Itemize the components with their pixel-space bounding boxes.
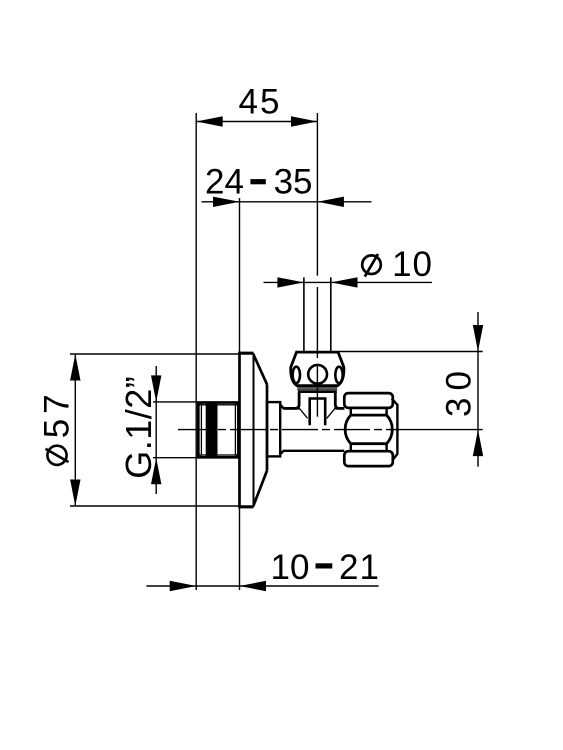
pipe outlet right edge [330,277,332,352]
dimension 10-21 line [146,585,378,587]
handle left ellipse [293,367,300,383]
svg-text:45: 45 [239,83,282,122]
symbol diameter of d10 [362,255,381,274]
dimension G1/2 line [155,366,157,494]
wire vertical centerline dash lower [316,364,318,417]
nut right silhouette [392,399,398,461]
svg-text:10: 10 [392,245,433,284]
arrow 10-21 left [170,581,197,591]
arrow d10 right [331,277,358,287]
rosette top chamfer [254,355,268,385]
handle right ellipse [335,367,342,383]
svg-text:21: 21 [339,548,380,587]
dimension d57 line [74,354,76,506]
neck ring [267,402,280,456]
arrow G1/2 top [151,375,161,402]
rosette front face line [253,353,255,507]
rosette outline [240,353,254,507]
dimension 24-35 line [202,201,372,203]
arrow 24-35 right [317,197,344,207]
handle center circle [308,365,327,384]
nut bottom band [344,451,393,466]
arrow d57 bottom [70,480,80,507]
dimension d57 extension bottom [70,505,254,507]
dimension 30 extension bottom / centerline solid right [395,429,483,431]
dimension 45 line [196,121,317,123]
handle outline [291,352,344,386]
svg-text:57: 57 [37,389,76,438]
arrow 30 bottom [473,430,483,457]
wire horizontal centerline dash-dot [178,429,395,431]
bonnet diagonal right [327,408,336,418]
thread G1/2 outer rectangle [198,403,238,458]
nut waist connectors [351,408,387,451]
rosette right face [266,384,269,470]
dimension diameter 10 line [264,281,432,283]
nut top band [344,393,393,408]
nut middle band [345,415,392,444]
arrow 45 left [196,116,223,126]
thread G1/2 black band [206,403,218,458]
dimension 30 line [477,312,479,467]
svg-text:10: 10 [271,548,310,587]
wire vertical centerline dash upper [316,287,318,358]
arrow d57 top [70,354,80,381]
symbol diameter of d57 [47,446,66,465]
thread G1/2 corner chamfers [198,403,238,458]
dimension d57 extension top [70,353,254,355]
wire right wall extension line [239,198,241,590]
arrow d10 left [277,277,304,287]
label dash of 24-35 [250,179,265,184]
thread G1/2 inner lines [201,405,235,455]
svg-text:24: 24 [205,163,244,202]
rosette bottom chamfer [254,471,268,506]
bonnet slot [310,399,326,426]
pipe outlet left edge [303,277,305,352]
arrow 45 right [291,116,318,126]
arrow 24-35 left [213,197,240,207]
body tube bottom edge [280,451,344,454]
collar ring lines [297,387,337,389]
wire vertical centerline extension top [316,113,318,276]
arrow 30 top [473,325,483,352]
body tube top edge [280,405,299,409]
svg-text:G.1/2”: G.1/2” [118,376,159,479]
arrow 10-21 right [240,581,267,591]
dimension G1/2 extension bottom [153,457,197,459]
svg-text:30: 30 [440,364,479,417]
wire left wall extension line [195,113,197,590]
label dash of 10-21 [316,563,333,568]
bonnet right side [335,392,344,409]
dimension G1/2 extension top [153,401,197,403]
arrow G1/2 bottom [151,458,161,485]
dimension 30 extension top [338,351,483,353]
bonnet left side [284,392,300,409]
bonnet diagonal left [299,408,308,418]
svg-text:35: 35 [274,163,313,202]
